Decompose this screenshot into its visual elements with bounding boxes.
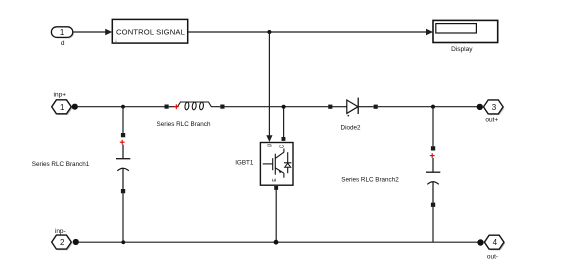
svg-text:3: 3 [492, 103, 497, 112]
node gate tap junction [267, 30, 271, 34]
svg-text:C: C [279, 144, 285, 148]
wire CONTROL SIGNAL to Display [188, 29, 433, 35]
svg-text:1: 1 [60, 103, 65, 112]
svg-text:CONTROL SIGNAL: CONTROL SIGNAL [116, 27, 185, 36]
junction dot out+ [477, 104, 483, 110]
node left-cap tap [121, 105, 125, 109]
block Display [433, 20, 498, 42]
diode D2 [328, 98, 378, 117]
wire d to CONTROL SIGNAL [73, 29, 112, 35]
port inp- (2) [52, 235, 73, 250]
inport 1 (d) [51, 27, 74, 39]
internal diode [287, 152, 289, 173]
svg-text:Display: Display [451, 46, 473, 53]
transistor block IGBT1 [260, 143, 293, 186]
node right-cap tap [431, 105, 435, 109]
wire emitter drop [275, 190, 277, 242]
junction dot out- [477, 239, 483, 245]
svg-text:out-: out- [487, 254, 498, 261]
wire bottom [78, 241, 478, 243]
svg-text:inp+: inp+ [54, 92, 67, 99]
wire inductor to diode [225, 106, 329, 108]
svg-text:Series RLC Branch: Series RLC Branch [157, 121, 211, 128]
wire gate drop [266, 32, 272, 142]
svg-text:IGBT1: IGBT1 [235, 160, 254, 167]
svg-text:2: 2 [60, 238, 65, 247]
capacitor branch Series RLC Branch2 [426, 107, 440, 243]
pin E square [274, 186, 278, 190]
wire collector drop [283, 107, 285, 138]
svg-text:g: g [267, 144, 273, 147]
svg-text:out+: out+ [485, 117, 498, 124]
port inp+ (1) [52, 100, 73, 115]
pin C square [282, 137, 286, 141]
svg-text:d: d [61, 40, 65, 47]
svg-text:4: 4 [493, 238, 498, 247]
svg-text:inp-: inp- [55, 228, 66, 235]
svg-text:Diode2: Diode2 [341, 125, 361, 132]
svg-text:↓: ↓ [115, 38, 118, 44]
port out+ (3) [484, 100, 505, 115]
junction dot inp+ [72, 104, 78, 110]
capacitor branch Series RLC Branch1 [116, 107, 130, 243]
block CONTROL SIGNAL [112, 19, 187, 44]
port out- (4) [484, 235, 505, 250]
svg-text:1: 1 [60, 28, 65, 37]
inductor Series RLC Branch [165, 102, 225, 110]
junction dot inp- [73, 239, 79, 245]
svg-text:Series RLC Branch2: Series RLC Branch2 [341, 177, 399, 184]
wire middle left [77, 106, 165, 108]
svg-text:Series RLC Branch1: Series RLC Branch1 [32, 161, 90, 168]
wire diode to out+ [378, 106, 478, 108]
IGBT icon [263, 163, 273, 165]
node bottom emitter [274, 240, 279, 245]
node collector tap [282, 105, 286, 109]
node bottom left-cap [121, 240, 125, 244]
